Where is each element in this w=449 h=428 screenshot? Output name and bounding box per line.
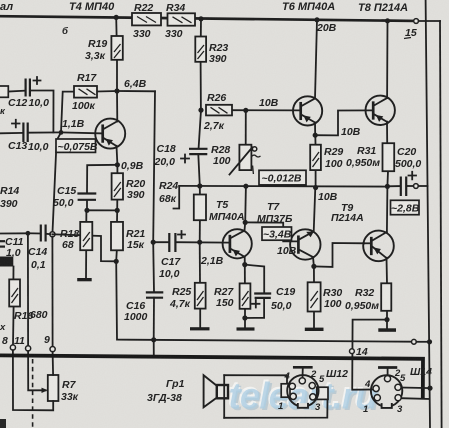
wire C12 right to corner down bbox=[30, 91, 53, 133]
measurement box ~0,012V bbox=[259, 170, 306, 185]
wire T9 collector up bbox=[386, 186, 389, 231]
resistor R20 bbox=[112, 173, 123, 199]
resistor R32 bbox=[381, 283, 391, 311]
junction R29 bottom on mid rail bbox=[313, 185, 318, 190]
wiper arrowhead bbox=[42, 388, 48, 393]
wire C19 top link bbox=[245, 265, 264, 293]
resistor R34 bbox=[168, 13, 196, 25]
wire C14 node L to R21 bottom bbox=[52, 234, 116, 261]
wire T5 collector stub bbox=[244, 222, 247, 230]
junction R31 bottom / T9 collector bbox=[385, 184, 390, 189]
wire R30 bottom to ground bbox=[313, 312, 315, 328]
wire R32 bottom left to Sh14 drop bbox=[352, 320, 387, 390]
junction T4 emitter 0,9V bbox=[115, 162, 120, 167]
node 15 terminal circle bbox=[414, 19, 419, 24]
junction R32 bottom bbox=[384, 317, 389, 322]
wire C15-R20 bottoms link bbox=[87, 209, 117, 211]
wire R31 bottom lead bbox=[386, 171, 389, 186]
wire emitter node to C15 bbox=[87, 165, 117, 193]
bottom left corner smudge bbox=[0, 419, 6, 428]
capacitor C12 bbox=[26, 77, 41, 97]
resistor R22 bbox=[132, 13, 161, 25]
junction T5 emitter bbox=[242, 262, 247, 267]
wire R24 bottom to T5 base node bbox=[199, 220, 201, 242]
measurement box ~3,4V bbox=[262, 227, 292, 241]
wire C11 node from left edge bbox=[0, 232, 28, 234]
trimmer resistor R28 bbox=[230, 145, 261, 175]
ground R32 bbox=[378, 328, 396, 332]
connector Sh12 pin 4 bbox=[289, 383, 295, 389]
wire C14 right plate to circle bbox=[46, 233, 50, 235]
connector Sh12 right key bbox=[317, 387, 328, 399]
connector Sh14 top bar bbox=[379, 368, 396, 376]
wire T7 emitter junction down bbox=[313, 266, 315, 282]
junction supply column C17 bbox=[151, 240, 156, 245]
wire supply column down to C17 node bbox=[153, 91, 155, 242]
wire R27 top lead bbox=[244, 265, 246, 284]
transistor T9 bbox=[363, 231, 394, 262]
wire T5 collector up bbox=[244, 186, 247, 222]
measurement box ~0,075V bbox=[56, 139, 98, 153]
wire R28 top lead bbox=[245, 110, 247, 144]
junction R28 top on base wire bbox=[243, 108, 248, 113]
wire Sh14 pin3 to bus leg bbox=[402, 397, 430, 400]
scan grain overlay bbox=[0, 0, 1, 1]
wire R27 bottom to ground bbox=[244, 309, 246, 328]
wire R19 bottom to junction 6,4V bbox=[116, 60, 118, 91]
wire R16 bottom to pin 8 bbox=[12, 307, 15, 345]
wire supply column to C16 top bbox=[152, 242, 155, 292]
connector Sh12 top bar bbox=[294, 367, 311, 377]
junction pin5 wire on V1 bbox=[427, 386, 432, 391]
capacitor C17 bbox=[169, 231, 185, 252]
wire R7 top lead bbox=[52, 352, 55, 375]
ground R27 bbox=[237, 327, 255, 330]
wire R24 top lead bbox=[199, 186, 201, 195]
resistor R29 bbox=[310, 145, 321, 170]
junction T6 emitter bbox=[313, 133, 318, 138]
resistor R26 bbox=[206, 105, 232, 116]
wire C14 node down to pin 9 bbox=[51, 237, 53, 347]
wire terminal to V1 bbox=[416, 341, 429, 343]
wire R25 top lead bbox=[199, 242, 201, 283]
wire T6 collector up bbox=[315, 20, 317, 99]
junction C11-C14 node bbox=[26, 231, 31, 236]
wire T7 collector up to mid rail bbox=[314, 188, 316, 232]
wire R26 right to T6 base bbox=[232, 109, 301, 111]
resistor R27 bbox=[240, 283, 251, 308]
capacitor C13 bbox=[12, 120, 28, 142]
junction rail-R19 bbox=[114, 15, 119, 20]
wire R29 bottom lead bbox=[315, 170, 317, 187]
resistor R25 bbox=[195, 283, 206, 309]
transistor T6 bbox=[293, 96, 322, 125]
wire R25 bottom to ground bbox=[199, 309, 201, 328]
connector Sh12 shell bbox=[287, 375, 318, 408]
connector Sh14 pin 4 bbox=[373, 385, 379, 391]
wire 6,4V node to supply column bbox=[117, 90, 155, 92]
terminal circle C14 node bbox=[50, 232, 55, 237]
connector Sh14 shell bbox=[371, 375, 402, 408]
wire C15 bottom bbox=[86, 200, 88, 210]
left edge input box bbox=[0, 86, 8, 97]
resistor R30 bbox=[308, 282, 321, 311]
connector Sh12 pin 5 bbox=[309, 383, 315, 389]
connector Sh14 pin 3 bbox=[395, 395, 401, 401]
wire T5 emitter down bbox=[244, 257, 246, 265]
capacitor C16 bbox=[146, 292, 164, 297]
resistor R19 bbox=[111, 36, 122, 60]
capacitor C15 bbox=[77, 194, 96, 200]
wire R21 bottom down and right along y340 bbox=[116, 261, 411, 341]
wire rail to right edge bbox=[419, 20, 441, 22]
wire C16 junction to ground bus bbox=[153, 340, 155, 357]
junction rail-R23 bbox=[198, 16, 203, 21]
connector Sh14 pin 5 bbox=[395, 384, 401, 390]
terminal circle pin 8 bbox=[10, 345, 15, 350]
connector Sh12 pin 1 bbox=[290, 393, 296, 399]
wire input C13 from left edge bbox=[0, 132, 23, 134]
junction R20 bottom bbox=[115, 208, 120, 213]
speaker Gr1 driver bbox=[217, 385, 228, 398]
junction T5 collector on mid rail bbox=[243, 184, 248, 189]
connector Sh12 left key bbox=[281, 384, 290, 397]
wire R21 top lead bbox=[116, 210, 118, 222]
wire mid rail y186 bbox=[179, 185, 387, 188]
resistor R17 bbox=[74, 86, 97, 98]
wire T4 emitter down bbox=[116, 146, 119, 165]
wire speaker loop left vertical bbox=[223, 375, 225, 418]
transistor T5 bbox=[223, 229, 252, 258]
wire link T7 emitter to T9 base bbox=[314, 243, 364, 267]
wire T7 emitter stub bbox=[312, 257, 315, 266]
wire right vertical V2 bbox=[440, 21, 442, 428]
wire R18 top lead bbox=[85, 210, 87, 222]
wire C13 to T4 base node bbox=[28, 131, 61, 133]
ground R30 bbox=[305, 328, 324, 331]
transistor T4 bbox=[95, 119, 125, 149]
wire C11 node to C14 left plate bbox=[28, 232, 40, 234]
wire speaker bottom to Sh12 pin3 drop bbox=[224, 399, 327, 417]
transistor T8 bbox=[366, 96, 395, 125]
junction T4 base node bbox=[59, 130, 64, 135]
resistor R21 bbox=[111, 222, 123, 250]
wire R32 bottom lead bbox=[386, 311, 388, 328]
junction T7 emitter bbox=[311, 264, 316, 269]
wire C17 right to T5 base bbox=[176, 241, 230, 243]
wire R17 left lead down to base node bbox=[61, 92, 74, 133]
wire R24 stub down bbox=[174, 186, 180, 209]
wire C18 top lead bbox=[199, 110, 201, 148]
junction y341 wire on V1 bbox=[427, 339, 432, 344]
capacitor C19 bbox=[252, 294, 271, 308]
junction T5 collector / T7 base link bbox=[243, 220, 248, 225]
junction C15 bottom bbox=[84, 208, 89, 213]
wire T4 collector bbox=[116, 91, 118, 122]
wire C19 bottom link bbox=[245, 298, 264, 318]
ground R25 bbox=[190, 327, 210, 330]
speaker Gr1 cone bbox=[204, 375, 217, 407]
terminal circle pin 9 bbox=[50, 347, 55, 352]
wire top supply rail bbox=[0, 16, 414, 21]
wire C17 left lead bbox=[153, 241, 169, 243]
wire T9 base into bar bbox=[364, 242, 371, 244]
junction rail-T8 collector bbox=[385, 18, 390, 23]
junction C18-R24 bbox=[197, 183, 202, 188]
wire C16 bottom to bottom wire bbox=[153, 298, 155, 340]
resistor R31 bbox=[383, 143, 395, 171]
wire T8 emitter down bbox=[386, 122, 388, 144]
capacitor C14 bbox=[41, 225, 46, 242]
transistor T7 bbox=[290, 229, 320, 259]
tick under 15 bbox=[404, 38, 411, 39]
connector Sh12 pin 3 bbox=[310, 394, 316, 400]
junction 6,4V node bbox=[114, 88, 119, 93]
junction R23-R26-C18 bbox=[198, 108, 203, 113]
capacitor C20 bbox=[401, 172, 416, 196]
wire T9 emitter down bbox=[386, 258, 389, 284]
wire right vertical V1 bbox=[426, 0, 430, 428]
terminal circle node 14 bbox=[350, 349, 355, 354]
wire Sh14 pin5 to V1 bbox=[401, 387, 430, 390]
wire R20 top lead bbox=[116, 165, 118, 173]
wire R23 top lead bbox=[200, 19, 202, 37]
wire base node down the long drop bbox=[52, 132, 61, 234]
wire R19 top lead bbox=[115, 17, 117, 36]
wire C12 input from edge box bbox=[8, 90, 25, 93]
wire T8 collector up bbox=[386, 21, 388, 98]
wire edge box to R16 bbox=[12, 267, 14, 280]
wire R17 right lead bbox=[97, 90, 117, 93]
wire R18 bottom to ground bbox=[85, 250, 87, 278]
watermark teleart.ru bbox=[227, 374, 379, 419]
capacitor C18 bbox=[181, 149, 208, 163]
junction rail-T6 collector bbox=[314, 17, 319, 22]
capacitor C11 (edge) bbox=[0, 241, 5, 246]
wire C20 to terminal and V1 bbox=[407, 185, 414, 187]
connector Sh14 pin 2 bbox=[384, 376, 390, 382]
junction T5 base node bbox=[197, 240, 202, 245]
connector Sh12 pin 2 bbox=[299, 378, 305, 384]
wire R21 bottom lead bbox=[115, 250, 118, 261]
wire T6 emitter down bbox=[314, 122, 316, 135]
wire R23 bottom to R26 node bbox=[200, 62, 202, 110]
wire R29 top lead bbox=[314, 135, 316, 145]
terminal circle pin 11 bbox=[26, 346, 31, 351]
terminal circle after C20 bbox=[414, 184, 419, 189]
resistor R24 bbox=[194, 195, 206, 221]
dashed control link bbox=[32, 359, 34, 428]
wire C11 node down to pin 11 bbox=[27, 233, 29, 345]
ground bus thick line bbox=[0, 355, 423, 399]
wire speaker top to Sh12 bbox=[224, 375, 287, 384]
wire link T5 collector to T7 base bbox=[245, 222, 298, 241]
potentiometer R7 bbox=[48, 375, 59, 401]
wire R7 bottom loop bbox=[13, 350, 53, 410]
wire T4 base bbox=[61, 132, 103, 133]
wire C20 left lead bbox=[387, 185, 400, 187]
junction R21 bottom bbox=[114, 259, 119, 264]
resistor R16 bbox=[9, 279, 20, 306]
resistor R23 bbox=[195, 37, 206, 62]
junction C16 bottom on long wire bbox=[151, 337, 156, 342]
junction R27 bottom bbox=[242, 315, 247, 320]
wire C18 bottom lead bbox=[198, 154, 200, 186]
measurement box ~2,8V bbox=[391, 200, 420, 214]
connector Sh14 pin 1 bbox=[374, 395, 380, 401]
wire T6 emitter to T8 base bbox=[315, 110, 373, 135]
resistor R18 bbox=[80, 222, 92, 250]
wire R7 wiper bbox=[28, 351, 45, 390]
black edge box bbox=[0, 257, 13, 267]
wire R20 bottom lead bbox=[116, 200, 118, 211]
terminal circle on y341 wire bbox=[412, 339, 417, 344]
ground R18 bbox=[77, 278, 92, 281]
